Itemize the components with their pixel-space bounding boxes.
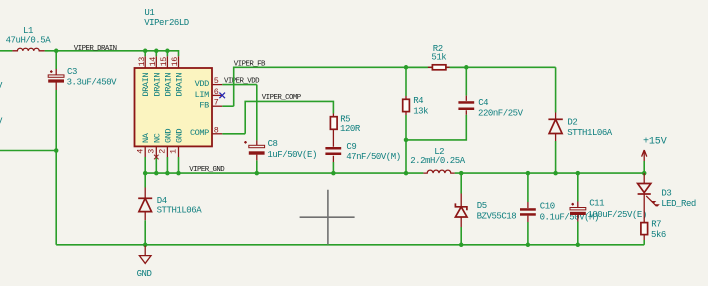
svg-text:VIPER_FB: VIPER_FB [234, 61, 266, 69]
graphic crosshair [300, 190, 355, 245]
node junction FB/C4 [464, 65, 469, 70]
pin 6 LIM [195, 87, 223, 100]
svg-text:STTH1L06A: STTH1L06A [157, 205, 203, 215]
node junction FB/R4 [404, 65, 409, 70]
node junction C8/rail [255, 171, 260, 176]
svg-text:5: 5 [214, 76, 219, 86]
node junction C10/rail [526, 171, 531, 176]
resistor R5 [330, 114, 360, 134]
no-connect X on pin 6 [219, 93, 225, 99]
svg-text:VDD: VDD [195, 79, 209, 89]
node junction C11/rail [576, 171, 581, 176]
wire loop bottom to C4 [406, 115, 466, 140]
pin 16 [170, 56, 184, 96]
node junction at L1/C3 [54, 49, 59, 54]
node junction C9/rail [331, 171, 336, 176]
LED D3 [638, 173, 696, 209]
svg-text:6: 6 [214, 87, 219, 97]
svg-text:2.2mH/0.25A: 2.2mH/0.25A [410, 156, 466, 166]
svg-text:R7: R7 [651, 219, 661, 229]
power symbol +15V [642, 136, 667, 173]
pin 7 FB [199, 98, 233, 111]
wire VIPER_GND rail [145, 172, 406, 174]
zener diode D5 [455, 173, 516, 245]
diode D4 [138, 173, 202, 245]
svg-text:DRAIN: DRAIN [175, 73, 185, 97]
wire VDD down to C8 [256, 85, 258, 141]
svg-text:R5: R5 [340, 114, 350, 124]
wire VIPER_DRAIN [56, 51, 178, 57]
svg-text:DRAIN: DRAIN [163, 73, 173, 97]
svg-text:13: 13 [137, 57, 147, 67]
resistor R4 [403, 67, 428, 140]
wire R4 node down to rail [405, 140, 407, 173]
wire COMP up and across [245, 101, 333, 133]
wire C9 to rail [332, 162, 334, 173]
capacitor C4 [458, 67, 523, 118]
svg-text:VIPER_VDD: VIPER_VDD [224, 77, 260, 85]
svg-text:U1: U1 [144, 8, 154, 18]
svg-text:15: 15 [159, 57, 169, 67]
svg-text:1uF/50V(E): 1uF/50V(E) [267, 150, 317, 160]
svg-text:C11: C11 [589, 199, 604, 209]
node junction D4/bottom rail [143, 243, 148, 248]
node junction C11/bottom [576, 243, 581, 248]
wire C3 down to bottom rail [55, 90, 57, 245]
svg-text:4: 4 [135, 149, 145, 154]
node junction D5/rail [459, 171, 464, 176]
capacitor C9 [325, 133, 400, 162]
resistor R2 [406, 44, 466, 70]
diode D2 [548, 67, 612, 173]
svg-text:D5: D5 [477, 201, 487, 211]
resistor R7 [641, 205, 666, 245]
svg-text:DRAIN: DRAIN [141, 73, 151, 97]
svg-text:16: 16 [170, 57, 180, 67]
inductor L1 [0, 26, 56, 51]
capacitor C3 [48, 51, 117, 90]
wire output rail after L2 [461, 172, 644, 174]
pin 3 NC [147, 133, 163, 175]
pin 4 NA [135, 132, 151, 175]
capacitor C8 [244, 139, 317, 161]
pin 5 VDD [195, 76, 257, 89]
wire FB vertical and VIPER_FB run [234, 67, 556, 106]
svg-text:VIPER_GND: VIPER_GND [189, 166, 225, 174]
pin 13 [137, 49, 151, 97]
svg-text:47nF/50V(M): 47nF/50V(M) [346, 152, 400, 162]
pin 2 GND [158, 129, 174, 176]
svg-text:R4: R4 [413, 96, 423, 106]
pin 1 GND [169, 129, 185, 176]
ground symbol GND [137, 245, 152, 279]
svg-text:NA: NA [141, 132, 151, 143]
svg-text:VIPer26LD: VIPer26LD [144, 18, 189, 28]
node junction D5/bottom [459, 243, 464, 248]
node junction +15V/LED/rail [642, 171, 647, 176]
svg-text:14: 14 [148, 57, 158, 67]
wire bottom rail [56, 244, 644, 246]
svg-text:L1: L1 [23, 26, 33, 36]
svg-text:100uF/25V(E): 100uF/25V(E) [587, 210, 646, 220]
pin 14 [148, 49, 162, 97]
node junction R4 bottom [404, 138, 409, 143]
svg-text:120R: 120R [340, 124, 361, 134]
node junction rail/R4 branch [404, 171, 409, 176]
svg-text:DRAIN: DRAIN [152, 73, 162, 97]
svg-text:NC: NC [152, 133, 162, 143]
svg-text:D2: D2 [567, 117, 577, 127]
svg-text:2: 2 [158, 149, 168, 154]
capacitor C10 [520, 173, 599, 245]
IC U1 VIPer26LD body [135, 8, 213, 146]
svg-text:STTH1L06A: STTH1L06A [567, 128, 613, 138]
svg-text:GND: GND [137, 269, 152, 279]
svg-text:D3: D3 [661, 189, 671, 199]
svg-text:3: 3 [147, 149, 157, 154]
svg-text:GND: GND [163, 129, 173, 143]
svg-text:C4: C4 [478, 98, 488, 108]
svg-text:BZV55C18: BZV55C18 [477, 212, 517, 222]
svg-text:VIPER_COMP: VIPER_COMP [262, 94, 302, 102]
svg-text:47uH/0.5A: 47uH/0.5A [6, 36, 52, 46]
node junction D2/rail [553, 171, 558, 176]
svg-text:C3: C3 [67, 67, 77, 77]
svg-text:LED_Red: LED_Red [661, 199, 696, 209]
svg-text:1: 1 [169, 149, 179, 154]
svg-text:VIPER_DRAIN: VIPER_DRAIN [74, 45, 117, 53]
svg-text:C8: C8 [268, 139, 278, 149]
svg-text:+15V: +15V [643, 136, 667, 147]
svg-text:GND: GND [175, 129, 185, 143]
pin 8 COMP [190, 125, 245, 138]
svg-text:FB: FB [199, 101, 209, 111]
svg-text:13k: 13k [413, 106, 428, 116]
svg-text:LIM: LIM [195, 90, 209, 100]
svg-text:C10: C10 [540, 202, 555, 212]
inductor L2 [406, 147, 466, 173]
node junction C10/bottom [526, 243, 531, 248]
wire left input at y150 [0, 150, 56, 152]
capacitor C11 [570, 173, 647, 245]
svg-text:8: 8 [214, 125, 219, 135]
svg-text:3.3uF/450V: 3.3uF/450V [67, 78, 118, 88]
node junction C3/left wire [54, 148, 59, 153]
svg-text:51k: 51k [431, 53, 446, 63]
pin 15 [159, 49, 173, 97]
svg-text:C9: C9 [346, 142, 356, 152]
svg-text:220nF/25V: 220nF/25V [478, 108, 524, 118]
wire C8 to rail [256, 160, 258, 173]
svg-text:5k6: 5k6 [651, 230, 666, 240]
svg-text:COMP: COMP [190, 128, 209, 138]
svg-text:7: 7 [214, 98, 219, 108]
